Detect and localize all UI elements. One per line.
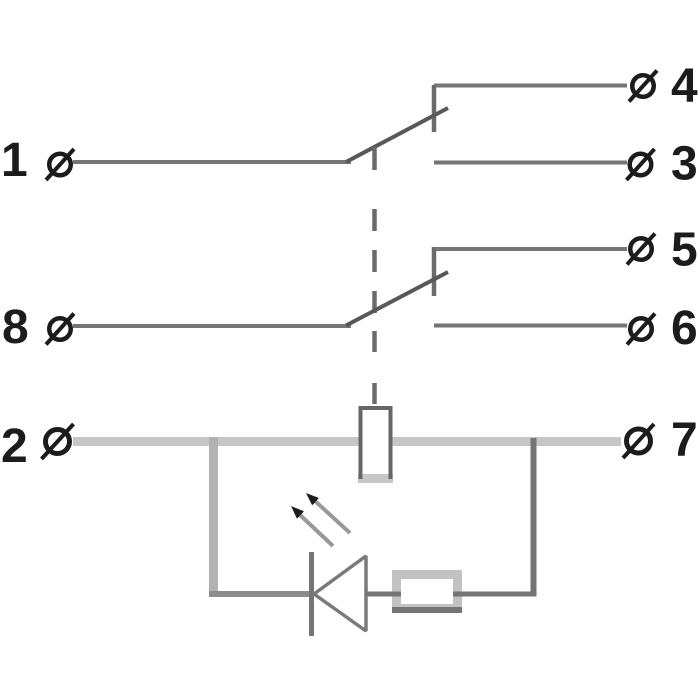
relay coil K1 <box>359 406 393 480</box>
LED light arrow lower <box>291 506 333 546</box>
wire pin 3 <box>434 161 627 165</box>
pin 4 solder terminal <box>629 71 657 102</box>
wire pin 8 to switch arm <box>73 324 351 328</box>
svg-text:1: 1 <box>1 134 28 187</box>
pin 7 solder terminal <box>623 424 654 458</box>
wire resistor to right riser <box>453 592 537 597</box>
pin 5 solder terminal <box>627 234 655 265</box>
contact tick pin 4 <box>432 85 437 132</box>
pin 3 solder terminal <box>627 149 655 180</box>
LED branch bottom left wire <box>209 591 311 597</box>
svg-text:4: 4 <box>671 60 698 113</box>
svg-text:7: 7 <box>671 414 698 467</box>
pin 8 solder terminal <box>46 314 74 345</box>
switch arm S1 <box>346 108 448 162</box>
thick coil bus wire pin2-pin7 <box>73 437 621 446</box>
switch arm S2 <box>346 272 448 326</box>
resistor R1 body <box>392 575 462 614</box>
wire pin 6 <box>434 324 627 328</box>
wire pin 4 to contact <box>434 84 627 88</box>
dashed actuator link <box>372 147 377 404</box>
svg-text:5: 5 <box>671 224 698 277</box>
LED branch right riser <box>531 438 537 597</box>
svg-text:2: 2 <box>1 420 28 473</box>
LED cathode bar <box>309 552 314 636</box>
wire LED to resistor <box>366 592 401 597</box>
LED branch left riser <box>209 437 218 596</box>
LED triangle <box>314 556 366 631</box>
LED light arrow upper <box>306 493 350 533</box>
contact tick pin 5 <box>432 247 437 296</box>
svg-text:6: 6 <box>671 302 698 355</box>
wire pin 1 to switch arm <box>73 160 351 164</box>
pin 2 solder terminal <box>42 424 74 459</box>
wire pin 5 to contact <box>434 247 628 251</box>
pin 1 solder terminal <box>46 149 74 180</box>
svg-text:3: 3 <box>671 138 698 191</box>
pin 6 solder terminal <box>627 314 655 345</box>
svg-text:8: 8 <box>2 301 29 354</box>
